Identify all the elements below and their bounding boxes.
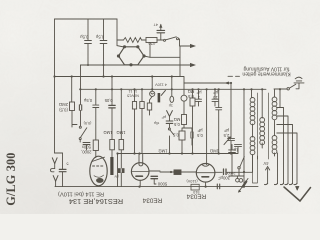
svg-text:1MΩ: 1MΩ xyxy=(210,149,219,154)
svg-text:0,5μ: 0,5μ xyxy=(83,98,92,103)
svg-text:G/LG 300: G/LG 300 xyxy=(4,152,18,205)
svg-text:RE 114 (bei 110V): RE 114 (bei 110V) xyxy=(58,191,104,197)
svg-text:47: 47 xyxy=(154,23,158,28)
svg-text:11 11: 11 11 xyxy=(128,89,137,93)
svg-text:RE034: RE034 xyxy=(186,193,206,200)
svg-text:4 110V: 4 110V xyxy=(155,83,167,87)
svg-text:5: 5 xyxy=(67,161,69,165)
svg-text:(0,5): (0,5) xyxy=(83,121,92,125)
svg-text:(0,5): (0,5) xyxy=(59,108,68,113)
svg-text:μF: μF xyxy=(224,128,229,133)
svg-text:μF: μF xyxy=(161,115,166,119)
svg-text:2MΩ: 2MΩ xyxy=(59,102,68,107)
svg-text:500x: 500x xyxy=(81,145,91,150)
svg-text:2x600: 2x600 xyxy=(225,171,235,175)
svg-text:1MΩ: 1MΩ xyxy=(104,130,113,135)
svg-text:0,5μ: 0,5μ xyxy=(79,35,88,40)
svg-text:0,5μ: 0,5μ xyxy=(95,35,104,40)
svg-text:1MΩ: 1MΩ xyxy=(159,149,168,154)
svg-text:300μF: 300μF xyxy=(218,176,230,181)
svg-text:MΩ: MΩ xyxy=(188,89,195,94)
svg-text:für 110V Ausführung: für 110V Ausführung xyxy=(243,65,289,71)
svg-text:0,05: 0,05 xyxy=(104,98,113,103)
svg-text:1MΩ: 1MΩ xyxy=(117,130,126,135)
svg-text:RES164,RE 134: RES164,RE 134 xyxy=(69,197,123,206)
svg-text:0,5: 0,5 xyxy=(172,133,178,138)
svg-text:τ0μ: τ0μ xyxy=(154,121,160,125)
svg-text:470: 470 xyxy=(148,41,156,46)
svg-text:1μ: 1μ xyxy=(169,104,173,108)
svg-text:4V: 4V xyxy=(263,161,268,166)
svg-text:1μ: 1μ xyxy=(233,148,238,153)
svg-text:μν: μν xyxy=(114,175,118,179)
svg-text:MΩ: MΩ xyxy=(174,117,181,122)
svg-text:μF: μF xyxy=(196,90,201,95)
svg-text:NOV15: NOV15 xyxy=(127,94,139,98)
svg-text:μF: μF xyxy=(197,128,202,133)
svg-text:μF: μF xyxy=(213,90,218,95)
svg-text:5000: 5000 xyxy=(157,182,167,187)
svg-text:RE034: RE034 xyxy=(142,197,162,204)
svg-text:(110V): (110V) xyxy=(186,179,198,183)
